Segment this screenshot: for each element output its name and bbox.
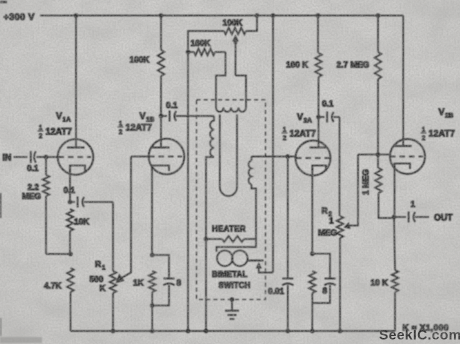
junction R1 bottom rail xyxy=(111,329,116,334)
junction V1B cathode rail xyxy=(150,329,155,334)
op tube V1A envelope and electrodes xyxy=(58,139,94,175)
junction combo bottom xyxy=(150,303,155,308)
capacitor 0.1 input xyxy=(30,151,32,163)
scan artifact top-left corner xyxy=(0,1,7,4)
wire coupling cap down to R1 xyxy=(112,202,114,271)
junction R2 rail xyxy=(338,329,343,334)
resistor 10K V1A cathode xyxy=(67,209,74,231)
resistor 2.7 MEG xyxy=(375,52,382,79)
junction bias line rail xyxy=(186,329,191,334)
resistor 160K xyxy=(188,51,194,53)
wire heater to bimetal xyxy=(217,240,257,252)
junction 10K/2.2MEG/4.7K xyxy=(68,252,73,257)
wire 2.2MEG bottom to cathode column xyxy=(46,253,71,255)
capacitor 8uF V1B bypass xyxy=(152,255,169,279)
junction V1A cathode xyxy=(68,200,73,205)
wire cap down to R2 xyxy=(339,117,341,216)
wire 1K to rail xyxy=(311,293,313,331)
inductor right coil xyxy=(249,161,252,185)
wire +300V top rail xyxy=(40,15,403,17)
junction contact rail xyxy=(271,13,276,18)
wire rail end to V2B plate xyxy=(402,16,404,147)
wire 4.7K to bottom rail xyxy=(70,292,72,331)
junction rail/2.7MEG xyxy=(376,13,381,18)
resistor heater xyxy=(206,238,222,240)
resistor 1 MEG grid xyxy=(375,168,382,193)
ground xyxy=(231,300,233,311)
wire pot left to 160K junction xyxy=(188,31,224,52)
scan artifact left edge xyxy=(0,193,2,218)
wire bias line left of box xyxy=(187,52,189,331)
resistor 4.7K xyxy=(67,268,74,292)
junction V2A cathode rail xyxy=(310,329,315,334)
junction box bottom ground xyxy=(230,297,235,302)
junction heater left xyxy=(204,237,209,242)
resistor 100K V2A plate xyxy=(315,53,322,77)
wire wiper line to grid node xyxy=(358,154,378,156)
junction V1B plate / coupling cap xyxy=(159,114,164,119)
wire V1A plate to rail xyxy=(75,16,77,148)
capacitor 8uF V2A bypass xyxy=(312,254,330,279)
junction V2B grid node xyxy=(376,152,381,157)
wire V2A grid line xyxy=(252,156,297,158)
capacitor 0.1 V1A cathode coupling xyxy=(70,201,75,203)
junction 160K node xyxy=(186,50,191,55)
wire rail to 2.7MEG xyxy=(377,16,379,53)
wire R1 bottom to rail xyxy=(112,293,114,331)
bimetal switch rings xyxy=(217,250,233,266)
capacitor 0.1 V2A coupling xyxy=(319,116,325,118)
op tube V2B envelope and electrodes xyxy=(390,139,425,174)
junction rail/V1A plate xyxy=(74,13,79,18)
wire input cap to V1A grid xyxy=(37,156,59,158)
op tube V1B envelope and electrodes xyxy=(149,139,185,175)
junction left line rail xyxy=(204,329,209,334)
wire right coil bottom lead xyxy=(252,185,257,240)
bimetal contact bar xyxy=(247,260,263,262)
wire 10K to rail corner xyxy=(394,292,396,331)
wire V1B cathode lead xyxy=(151,166,153,256)
arrow 100K pot wiper xyxy=(232,35,239,42)
capacitor 0.1 V1B plate coupling xyxy=(161,115,167,117)
wire left coil line to rail xyxy=(205,239,207,331)
wire grid to 0.01 cap xyxy=(287,157,289,279)
wire contact to top rail xyxy=(272,16,274,273)
wire 1K bottom xyxy=(151,292,153,331)
junction V2A plate / cap xyxy=(316,115,321,120)
wire rail to 100K xyxy=(160,16,162,51)
thermal element inner tube xyxy=(219,115,221,188)
junction OUT node xyxy=(392,215,397,220)
potentiometer R2 1MEG body xyxy=(337,216,344,238)
resistor 1K V1B cathode xyxy=(149,271,156,292)
junction grid/2.2MEG xyxy=(44,155,49,160)
arrow R2 wiper xyxy=(344,222,351,229)
wire 100K to V1B plate xyxy=(160,76,162,148)
resistor 10K V2B cathode xyxy=(394,217,395,270)
junction grid/0.01 xyxy=(286,154,291,159)
capacitor 0.01 xyxy=(282,278,293,280)
potentiometer 100K body xyxy=(224,28,246,35)
wire rail to 100K pot right xyxy=(246,16,257,32)
wire left coil bottom xyxy=(206,157,214,239)
capacitor 1 output xyxy=(394,216,406,218)
arrow bimetal contact xyxy=(256,262,262,269)
thermal element winding scallops xyxy=(216,108,246,112)
wire bottom ground rail xyxy=(71,330,396,332)
wire R2 bottom to rail xyxy=(339,238,341,331)
wire 100K to V2A plate xyxy=(318,77,320,148)
dashed box thermal unit xyxy=(197,100,266,300)
wire 2.7MEG to grid node xyxy=(377,79,379,155)
junction V2A cathode xyxy=(310,251,315,256)
resistor 1K V2A cathode xyxy=(309,271,316,293)
wire rail to 100K V2A xyxy=(317,16,319,54)
wire V2B cathode lead xyxy=(394,164,396,218)
junction V1B cathode combo top xyxy=(150,253,155,258)
resistor 100K V1B plate xyxy=(158,50,165,76)
arrow R1 wiper xyxy=(116,274,125,284)
scan artifact bottom-left smudge xyxy=(0,337,42,343)
junction rail/100K V1B xyxy=(159,13,164,18)
wire V2A cathode lead xyxy=(311,166,313,254)
wire V2B grid lead xyxy=(378,154,390,156)
resistor 2.2 MEG xyxy=(43,175,50,196)
wire 0.01 to rail xyxy=(287,285,289,331)
wire 10K to junction xyxy=(69,231,71,254)
wire R1 wiper to V1B grid xyxy=(121,157,132,279)
thermal element bulb top xyxy=(216,52,226,108)
op tube V2A envelope and electrodes xyxy=(296,141,331,176)
wire IN lead xyxy=(14,156,28,158)
junction rail/100K V2A xyxy=(316,13,321,18)
potentiometer R1 500K body xyxy=(110,271,117,293)
inductor left coil xyxy=(210,116,214,157)
junction rail/pot xyxy=(255,13,260,18)
junction 0.01 rail xyxy=(286,329,291,334)
wire V1A cathode lead xyxy=(69,166,71,203)
wire V1B grid lead xyxy=(131,156,149,158)
